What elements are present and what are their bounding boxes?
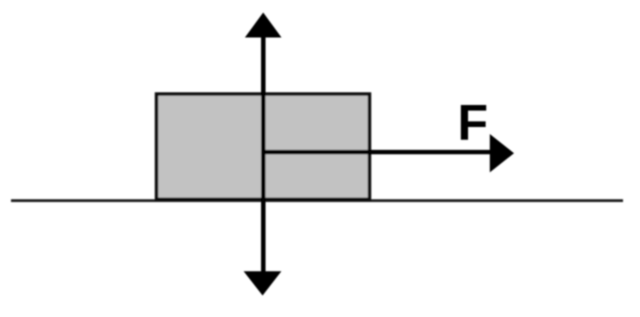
ground line <box>11 199 623 202</box>
wire: horizontal force line <box>263 150 492 154</box>
arrowhead right (force F) <box>490 134 514 172</box>
arrowhead down (weight) <box>244 271 282 295</box>
wire: vertical force line <box>261 33 266 276</box>
arrowhead up (normal force) <box>245 13 282 38</box>
block (gray box) <box>157 94 370 199</box>
svg-text:F: F <box>458 95 489 151</box>
